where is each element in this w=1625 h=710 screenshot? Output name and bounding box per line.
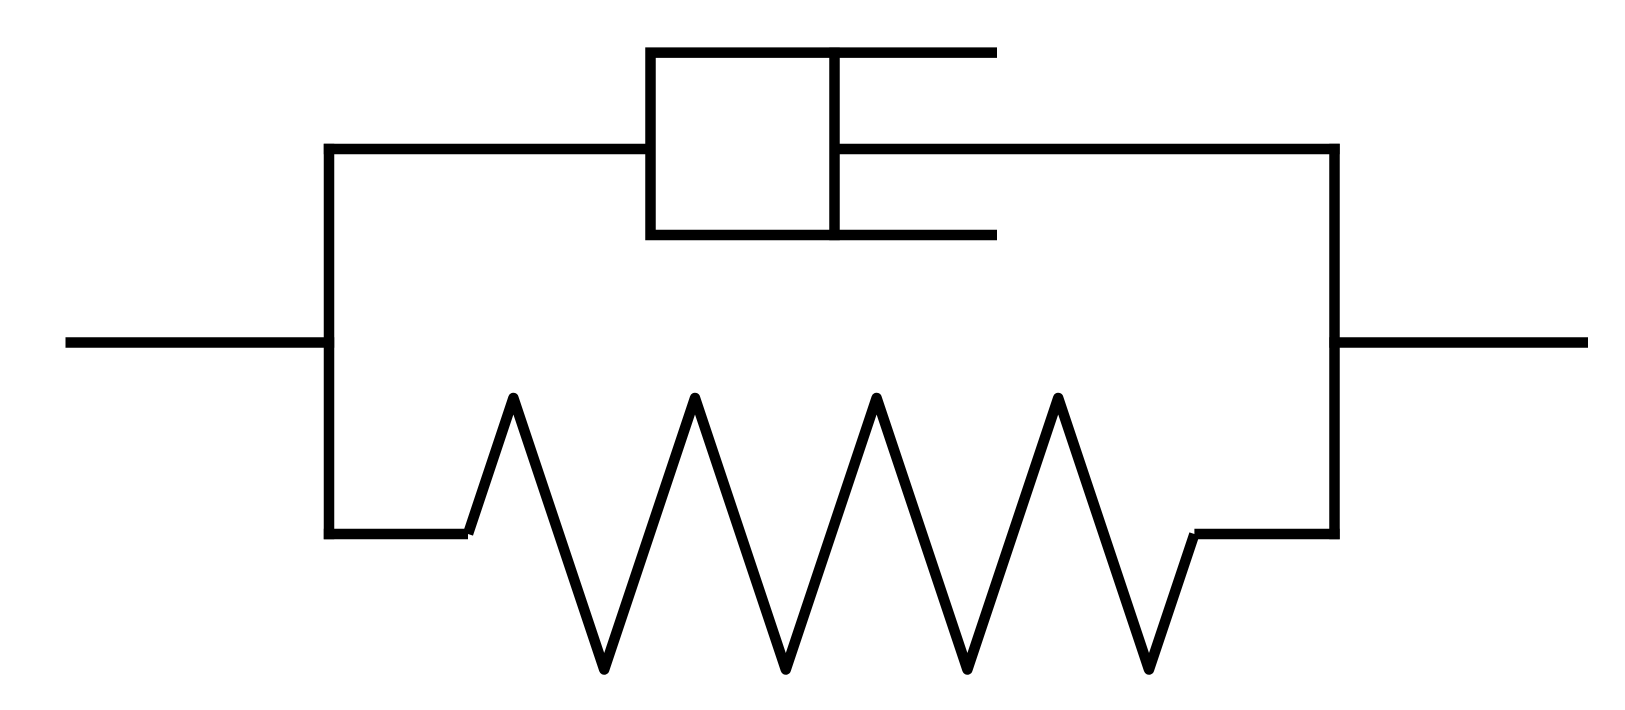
spring (zigzag) [468, 398, 1194, 670]
left lead wire [66, 337, 335, 348]
wire: damper piston rod to right [835, 144, 1340, 155]
wire: top-left horizontal to damper left cap [324, 144, 651, 155]
wire: bottom-right horizontal from spring [1194, 529, 1339, 540]
damper piston plate [829, 47, 840, 240]
wire: right vertical branch riser [1329, 144, 1340, 540]
wire: left vertical branch riser [324, 144, 335, 540]
right lead wire [1329, 337, 1588, 348]
wire: bottom-left horizontal to spring [324, 529, 468, 540]
damper cylinder (open box facing right) [651, 53, 998, 235]
